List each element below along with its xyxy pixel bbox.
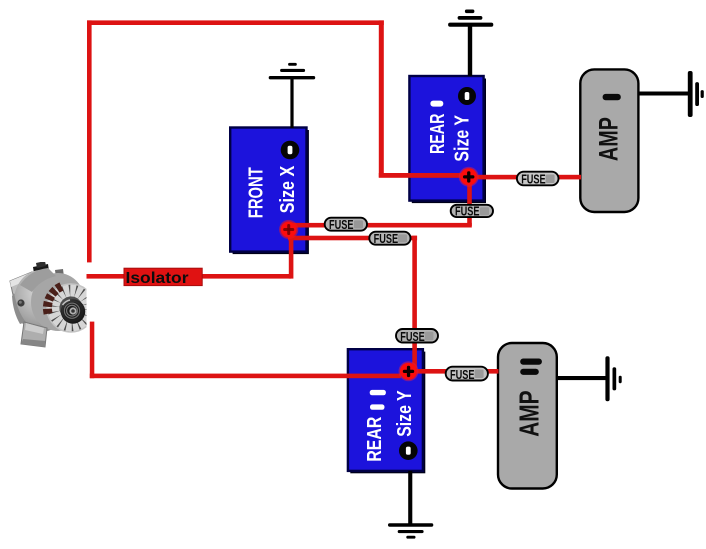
wire REAR I junction down — [467, 176, 472, 226]
svg-text:FUSE: FUSE — [455, 204, 480, 218]
junction node at FRONT battery — [279, 220, 298, 239]
wire REAR II junction to AMP2 — [408, 369, 499, 374]
svg-text:Isolator: Isolator — [126, 270, 189, 287]
stator winding slots (copper) — [43, 282, 64, 314]
svg-text:REAR: REAR — [427, 113, 449, 154]
fuse F5 (above REAR II junction) — [396, 329, 438, 344]
svg-text:FUSE: FUSE — [521, 173, 546, 187]
svg-text:FUSE: FUSE — [400, 330, 425, 344]
ground right of AMP2 — [557, 356, 622, 401]
svg-text:FUSE: FUSE — [329, 218, 354, 232]
fuse F2 (FRONT junction to REAR II branch) — [369, 232, 410, 246]
svg-text:Size X: Size X — [277, 165, 299, 213]
bottom mounting foot — [21, 322, 47, 347]
svg-text:FUSE: FUSE — [450, 368, 475, 382]
wire drop to REAR I level — [379, 20, 384, 177]
battery FRONT Size X — [230, 128, 309, 255]
wire REAR II branch vertical — [412, 236, 417, 369]
ground above REAR I battery — [448, 10, 493, 77]
fuse F1 (FRONT junction to distribution) — [325, 218, 367, 232]
amplifier AMP 2 — [498, 343, 557, 489]
bolt hole lower-left — [17, 299, 24, 306]
wire into REAR I junction — [379, 173, 470, 178]
wire FRONT junction to REAR II branch horizontal — [288, 236, 417, 241]
junction node at REAR I battery — [459, 167, 479, 187]
isolator — [124, 268, 202, 287]
battery REAR II Size Y — [348, 349, 425, 473]
wire alternator to isolator horizontal — [87, 274, 292, 279]
ground below REAR II battery — [388, 471, 433, 539]
fuse F6 (REAR II junction to AMP2) — [446, 367, 488, 382]
wire distribution to FRONT junction — [288, 223, 472, 228]
rear black connector — [33, 264, 50, 280]
ground right of AMP1 — [638, 71, 703, 117]
svg-text:REAR: REAR — [364, 416, 386, 461]
front fan ring concentric with pulley — [43, 282, 95, 332]
amplifier AMP 1 — [580, 69, 638, 212]
wire alternator lower vertical — [90, 322, 95, 379]
mounting arm left — [10, 272, 36, 295]
fuse F4 (REAR I junction to AMP1) — [517, 172, 559, 187]
svg-text:FRONT: FRONT — [246, 167, 268, 218]
rear housing body — [14, 270, 68, 332]
svg-text:Size Y: Size Y — [451, 114, 473, 161]
battery REAR I Size Y — [409, 76, 486, 203]
junction node at REAR II battery — [399, 361, 419, 381]
wire top horizontal — [87, 20, 384, 25]
svg-text:Size Y: Size Y — [394, 390, 416, 437]
fuse F3 (below REAR I junction) — [451, 204, 493, 218]
svg-text:FUSE: FUSE — [374, 232, 399, 246]
svg-text:AMP: AMP — [594, 117, 624, 161]
alternator (photo) — [10, 261, 95, 347]
wire REAR I junction to AMP1 — [469, 175, 581, 180]
pulley — [61, 299, 85, 323]
wire alternator-to-top vertical — [87, 20, 92, 262]
svg-text:AMP: AMP — [513, 390, 544, 436]
ground above FRONT battery — [269, 63, 316, 128]
wire alternator to REAR II junction horizontal — [90, 374, 401, 379]
wire isolator up to FRONT junction — [289, 229, 294, 279]
